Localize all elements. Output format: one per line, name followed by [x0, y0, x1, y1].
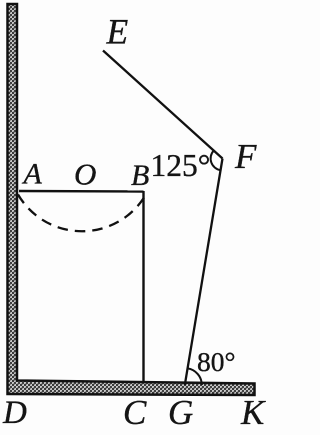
angle arc at F (125 deg): [211, 151, 221, 171]
svg-text:B: B: [131, 159, 149, 192]
svg-text:E: E: [106, 12, 129, 52]
svg-text:O: O: [74, 157, 96, 192]
svg-text:D: D: [2, 395, 27, 431]
wire segment FG: [185, 159, 223, 386]
svg-text:G: G: [168, 393, 193, 432]
wall DA and floor DK (hatched L-shape): [8, 4, 255, 395]
svg-text:80°: 80°: [197, 346, 236, 377]
wire segment AB: [19, 190, 144, 193]
svg-text:125°: 125°: [151, 148, 211, 183]
angle arc at G (80 deg): [188, 368, 202, 385]
svg-text:A: A: [22, 158, 43, 191]
svg-text:K: K: [240, 393, 266, 432]
svg-text:C: C: [123, 393, 147, 432]
dashed arc from A to B: [18, 195, 145, 232]
wire segment BC: [142, 191, 144, 382]
svg-text:F: F: [234, 137, 257, 176]
wire segment EF: [103, 51, 223, 159]
